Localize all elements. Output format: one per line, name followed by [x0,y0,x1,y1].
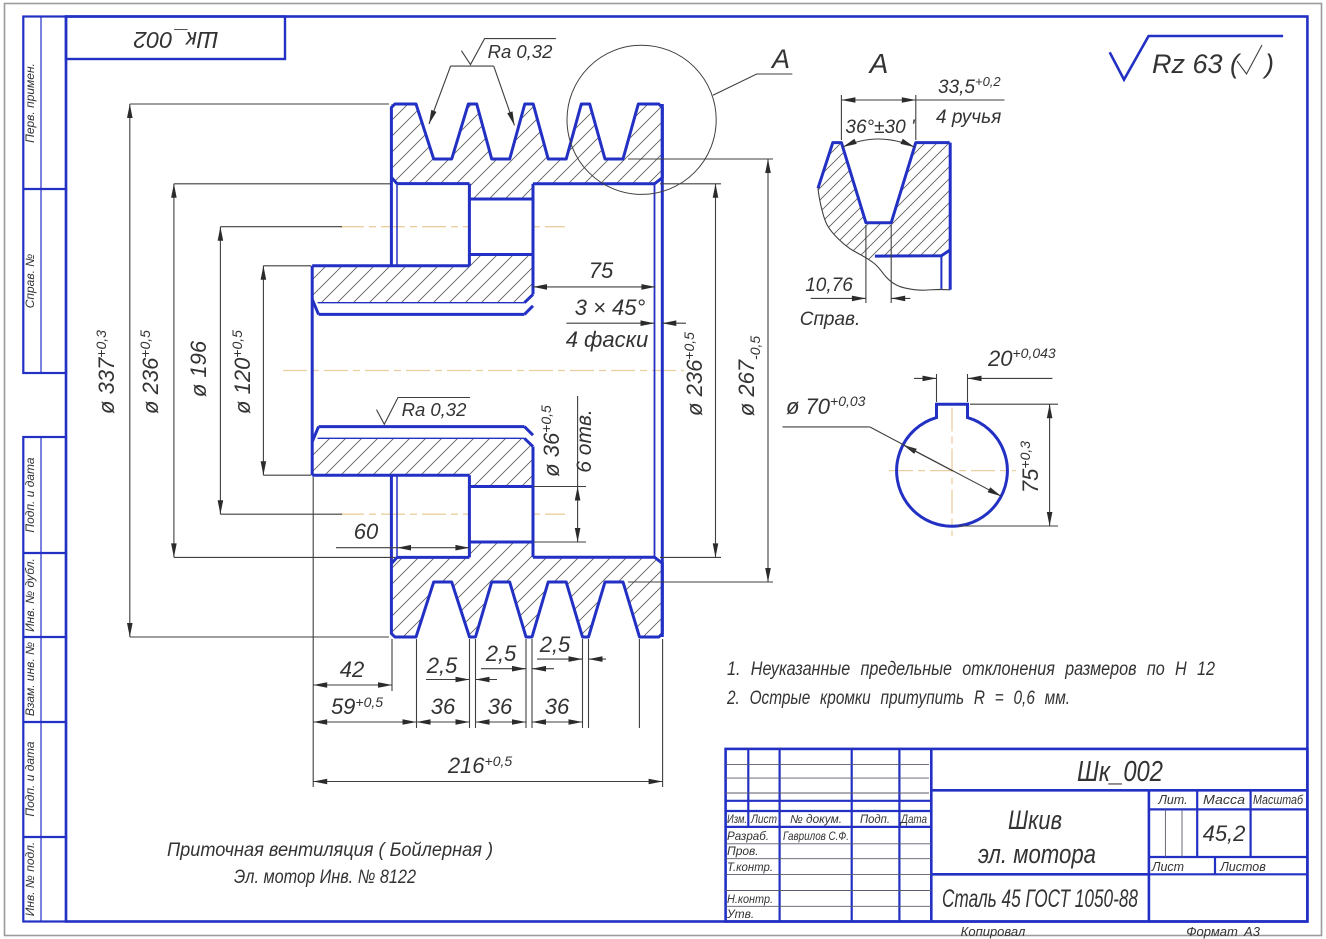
lower hole void [469,487,533,543]
svg-text:36: 36 [488,694,513,719]
dimension 42 [313,684,392,686]
svg-text:36: 36 [431,694,456,719]
dimension 216 [313,781,662,783]
right chamfer edge line [654,184,656,557]
thick verticals [778,749,780,922]
detail A break line [818,188,950,290]
bore chamfer left upper [312,299,318,314]
recess top edge [397,182,469,185]
svg-text:36°±30 ': 36°±30 ' [845,117,916,138]
svg-text:Масштаб: Масштаб [1253,793,1304,807]
svg-text:2. Острые кромки притупить: 2. Острые кромки притупить R = 0,6 мм. [726,687,1070,709]
svg-text:42: 42 [340,657,364,682]
svg-text:10,76: 10,76 [805,275,853,296]
rim inner surface right lower [533,556,655,559]
upper hole edges [469,198,533,201]
svg-text:4 ручья: 4 ручья [936,107,1001,128]
svg-text:Шк_002: Шк_002 [133,27,218,53]
bore chamfer right upper [524,294,533,302]
svg-text:Справ.: Справ. [800,309,861,330]
detail A chamfer edge [940,256,942,289]
bore chamfer left lower [312,427,318,442]
svg-text:Шк_002: Шк_002 [1077,756,1163,788]
Ra 0,32 bore [377,398,471,425]
svg-text:Т.контр.: Т.контр. [727,860,773,874]
svg-text:Инв. № дубл.: Инв. № дубл. [23,558,37,632]
pulley outline lower [312,427,662,637]
dimension Ø120 [262,266,264,475]
dimension 3x45 chamfer [566,322,686,324]
dimension 60 [336,547,469,549]
detail A right face [949,143,952,290]
lower hole edges [469,485,533,488]
pulley outline upper [312,104,662,637]
svg-text:Справ. №: Справ. № [23,254,37,309]
hub bottom edge [312,474,469,477]
dimension 75 [533,286,655,288]
svg-text:Подп.: Подп. [860,814,890,826]
dimension Ø337 [129,104,131,637]
dimension 2,5 #2 [481,668,526,670]
svg-text:36: 36 [545,694,570,719]
svg-text:Ra 0,32: Ra 0,32 [402,399,468,420]
dimension Ø267 [767,159,769,582]
svg-text:1. Неуказанные предельные от: 1. Неуказанные предельные отклонения раз… [727,658,1215,680]
bore chamfer circle line upper [318,302,525,304]
dimension Ø236 right [715,184,717,558]
bore chamfer circle line lower [318,437,525,439]
dimension 2,5 #3 [537,658,583,660]
rim inner surface right upper [533,182,655,185]
svg-text:Подп. и дата: Подп. и дата [23,741,37,816]
recess right wall upper [468,184,471,266]
left column strip boxes [23,17,66,922]
svg-text:60: 60 [354,519,379,544]
Rz 63 roughness mark top right [1110,36,1283,80]
right part lines [931,789,1307,792]
dimension Ø196 [219,227,221,515]
dimension 59 [313,721,416,723]
bore circle with keyway [897,404,1008,526]
svg-text:эл. мотора: эл. мотора [978,839,1096,869]
svg-text:Н.контр.: Н.контр. [727,892,773,906]
dimension 36 #3 [532,721,583,723]
dimension 75 keyway [958,404,1058,526]
recess chamfer lower [391,557,397,563]
recess bottom edge [397,556,469,559]
dimension 36 #2 [476,721,527,723]
svg-text:Взам. инв. №: Взам. инв. № [23,642,37,716]
hub top edge [312,264,469,267]
Ra 0,32 top with leaders [429,39,556,126]
dimension 10,76 [811,225,911,303]
thick horizontals left part [726,800,932,802]
svg-text:75: 75 [589,258,614,283]
svg-text:Дата: Дата [899,814,927,826]
svg-text:4 фаски: 4 фаски [566,327,649,352]
BOTTOM DIMENSIONS [313,477,662,787]
DIMENSIONS LEFT [130,104,395,637]
svg-text:2,5: 2,5 [539,632,571,657]
left strip labels [23,63,37,916]
detail A hatch [818,143,950,264]
DIMENSIONS RIGHT [628,159,773,582]
svg-text:ø 196: ø 196 [186,340,211,397]
centerline main axis [283,370,684,372]
svg-text:Формат: Формат [1186,924,1238,939]
centerline upper hole axis [340,226,565,228]
svg-text:Подп. и дата: Подп. и дата [23,457,37,532]
svg-text:Приточная вентиляция ( Бойл: Приточная вентиляция ( Бойлерная ) [167,839,493,861]
svg-text:Шкив: Шкив [1008,805,1062,835]
dimension 2,5 #1 [426,679,470,681]
labels diameters left [93,330,255,414]
dimension Ø236 left [173,184,175,558]
svg-text:Лит.: Лит. [1157,793,1187,807]
title block outer [726,749,1308,922]
svg-text:3 × 45°: 3 × 45° [575,295,646,320]
web right face upper [532,184,535,295]
upper hole void [469,199,533,255]
dimension Ø36 holes [534,396,586,542]
svg-text:А3: А3 [1243,924,1261,939]
svg-text:Инв. № подл.: Инв. № подл. [23,842,37,916]
svg-text:Копировал: Копировал [961,924,1026,939]
web right face lower [532,447,535,558]
svg-text:A: A [770,44,790,74]
bore top edge [319,313,525,316]
svg-text:Пров.: Пров. [727,844,759,858]
recess chamfer upper [391,177,397,183]
svg-text:Разраб.: Разраб. [727,829,769,843]
svg-text:Гаврилов С.Ф.: Гаврилов С.Ф. [783,829,849,843]
TITLE BLOCK [726,749,1308,922]
bore bottom edge [319,425,525,428]
title box Shk_002 top-left [66,17,285,60]
svg-text:№ докум.: № докум. [790,814,842,826]
svg-text:Лист: Лист [750,814,777,826]
svg-text:Перв. примен.: Перв. примен. [23,63,37,143]
recess right wall lower [468,475,471,557]
dimension 20 keyway [914,374,1052,402]
svg-text:Сталь 45 ГОСТ 1050-88: Сталь 45 ГОСТ 1050-88 [942,885,1138,913]
svg-text:Масса: Масса [1203,793,1245,807]
right face silhouette [661,104,664,637]
technical notes [726,658,1215,709]
dimension Ø70 [783,427,1002,496]
svg-text:A: A [868,48,889,79]
thin lines title block [726,764,1182,906]
svg-text:45,2: 45,2 [1203,821,1246,846]
detail A profile [818,143,950,223]
detail A chamfer [875,250,950,256]
svg-text:2,5: 2,5 [426,653,458,678]
recess edge line lower [396,475,398,557]
dimension 33,5 [841,95,1004,140]
dimension 36 #1 [417,721,470,723]
ext lines diameters left [130,103,389,105]
svg-text:Rz 63 (: Rz 63 ( [1152,49,1242,79]
ext lines bottom [312,477,314,787]
svg-text:Ra 0,32: Ra 0,32 [488,41,554,62]
svg-text:6 отв.: 6 отв. [573,409,596,472]
keyway centerlines [889,470,1016,472]
recess edge line upper [396,184,398,266]
dimension 36 degrees [843,139,915,147]
ext lines Ø236 right [660,183,721,185]
hatched section upper half [312,104,662,303]
svg-text:Лист: Лист [1151,860,1184,874]
svg-text:Утв.: Утв. [726,907,754,921]
svg-text:Эл. мотор Инв. № 8122: Эл. мотор Инв. № 8122 [234,866,416,888]
detail circle A on main view [567,45,792,194]
hatched section lower half [312,438,662,637]
bottom left annotation [167,839,493,888]
title block texts [726,793,1304,921]
ext lines Ø267 [628,158,773,160]
hub left face [311,266,314,475]
bore chamfer right lower [524,438,533,446]
svg-text:2,5: 2,5 [485,641,517,666]
svg-text:Изм.: Изм. [727,814,747,826]
labels diameters right [681,332,763,416]
svg-text:Листов: Листов [1219,860,1266,874]
centerline lower hole axis [340,513,565,515]
